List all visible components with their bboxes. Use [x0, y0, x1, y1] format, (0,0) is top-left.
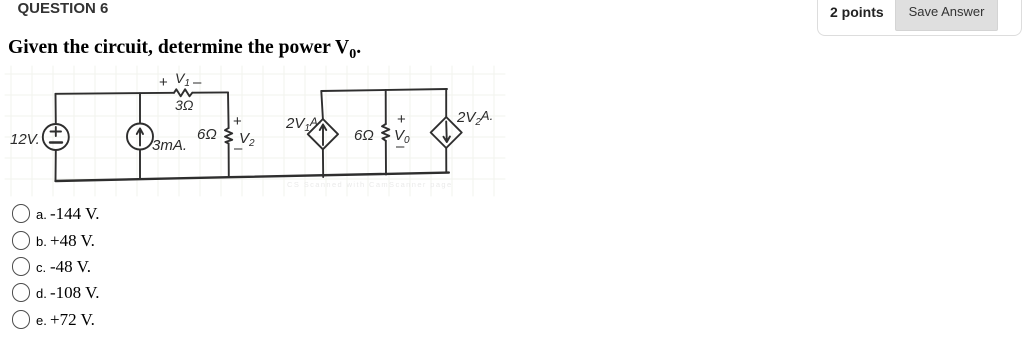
svg-text:–: –: [234, 140, 243, 157]
svg-text:V1: V1: [175, 70, 190, 89]
wire: top rail left: [56, 93, 175, 94]
svg-text:2V2A.: 2V2A.: [456, 108, 493, 128]
voltage source 12V circle: [43, 124, 69, 150]
wire: 2V1A branch lower: [322, 149, 324, 177]
wire: top rail right section: [321, 89, 447, 91]
wire: top rail to corner: [192, 91, 228, 93]
svg-text:+: +: [233, 113, 242, 130]
wire: V2 branch upper: [227, 92, 230, 128]
wire: 3mA branch upper: [139, 93, 141, 123]
svg-text:+: +: [397, 111, 406, 128]
resistor 6ohm vertical zigzag: [225, 128, 232, 144]
question text: [8, 37, 361, 63]
svg-text:3mA.: 3mA.: [152, 137, 187, 154]
wire: V0 branch upper: [385, 90, 387, 124]
wire: 2V1A branch upper: [321, 91, 323, 119]
arrow inside 3mA source: [137, 129, 143, 146]
wire: 2V2A branch lower: [445, 148, 447, 173]
wire: V0 branch lower: [385, 141, 387, 175]
svg-text:CS Scanned with CamScanner: CS Scanned with CamScanner page: [287, 180, 453, 189]
svg-text:12V.: 12V.: [10, 131, 40, 148]
dependent source 2V2A diamond: [431, 117, 462, 148]
svg-text:6Ω: 6Ω: [197, 126, 217, 143]
svg-text:2V1A·: 2V1A·: [285, 115, 322, 134]
minus sign inside source: [50, 141, 62, 143]
svg-text:6Ω: 6Ω: [354, 127, 374, 144]
svg-text:+: +: [159, 74, 168, 91]
header: [18, 0, 109, 17]
wire: 3mA branch lower: [139, 150, 141, 180]
arrow inside 2V2A (down): [444, 122, 450, 143]
wire: V2 branch lower: [228, 144, 230, 178]
wire: left vertical top: [55, 94, 57, 124]
bottom rail: [56, 173, 449, 181]
resistor 6ohm V0 vertical zigzag: [382, 124, 389, 141]
dependent source 2V1A diamond: [308, 119, 338, 149]
wire: left vertical bottom: [55, 150, 57, 181]
arrow inside 2V1A (up): [320, 125, 326, 146]
options: [0, 203, 400, 230]
faint graph paper grid: [5, 66, 505, 196]
svg-text:3Ω: 3Ω: [175, 97, 194, 113]
resistor R1 3ohm horizontal zigzag: [174, 89, 192, 96]
svg-text:–: –: [396, 138, 405, 155]
plus sign inside source: [51, 127, 62, 136]
current source 3mA circle: [127, 124, 153, 150]
wire: 2V2A branch upper: [445, 89, 447, 117]
svg-text:–: –: [193, 74, 202, 91]
